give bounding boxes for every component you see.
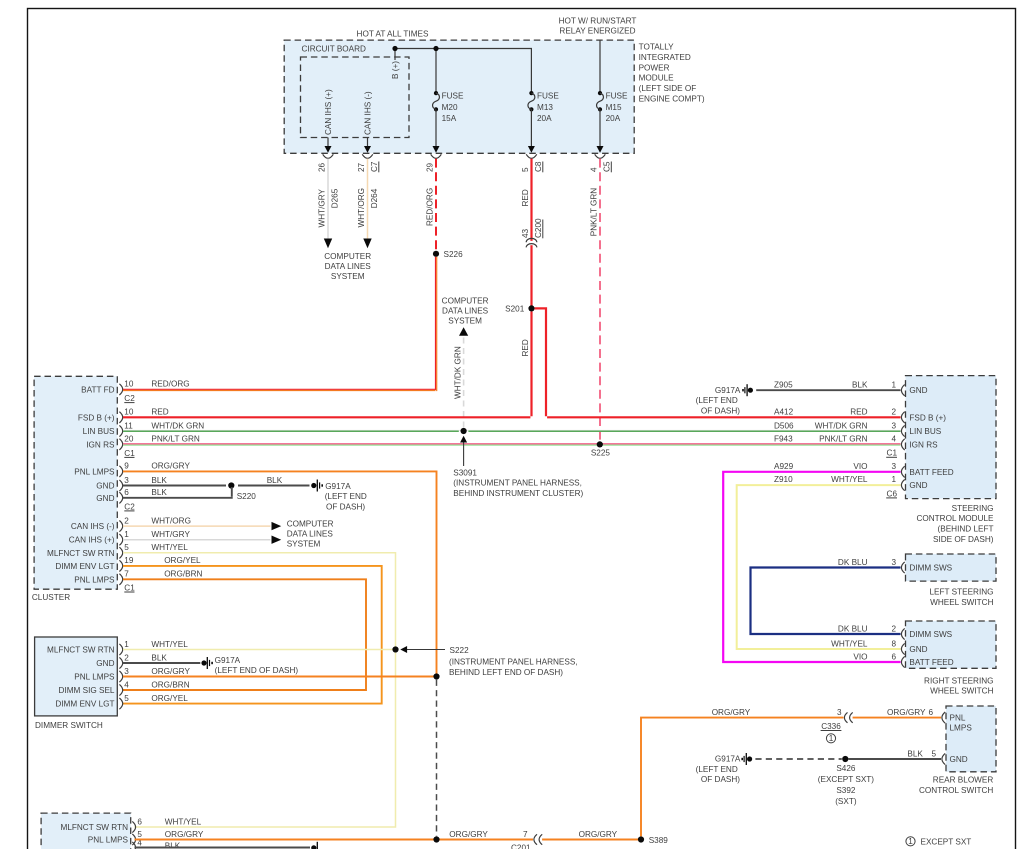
svg-text:GND: GND [96,482,114,491]
connector cup pin 4 [595,154,606,158]
node fuse M20 feed junction [433,46,438,51]
wire DK BLU left steering pin 3 [751,558,901,634]
wire CAN IHS (+) drop with arrow [325,138,332,153]
module REAR BLOWER CONTROL SWITCH box [919,706,996,795]
wire BLK GND pin3 to S220 [123,485,226,487]
svg-text:WHT/DK GRN: WHT/DK GRN [815,421,868,430]
svg-text:S226: S226 [444,250,464,259]
wire fuse M20 output drop with arrow [433,109,440,152]
module STEERING CONTROL MODULE box [906,376,997,544]
node S226 splice [433,250,463,259]
svg-text:ORG/BRN: ORG/BRN [164,570,202,579]
svg-text:S3091: S3091 [453,468,477,477]
module bottom partial box [41,813,131,849]
svg-text:ORG/BRN: ORG/BRN [151,680,189,689]
wire ORG/GRY dimmer pin 3 [123,676,434,678]
module TIPM (Totally Integrated Power Module) box [284,40,634,153]
svg-text:M15: M15 [606,103,622,112]
svg-text:PNK/LT GRN: PNK/LT GRN [819,435,867,444]
svg-text:PNL LMPS: PNL LMPS [74,575,115,584]
module LEFT STEERING WHEEL SWITCH box [906,554,997,607]
svg-text:C336: C336 [821,722,841,731]
svg-text:5: 5 [521,167,530,172]
connector cups right steering [901,628,904,667]
svg-text:DATA LINES: DATA LINES [442,307,489,316]
svg-text:CIRCUIT BOARD: CIRCUIT BOARD [302,44,367,53]
module DIMMER SWITCH box [35,637,118,730]
connector cup left steering pin 3 [901,562,904,573]
svg-text:S392: S392 [836,786,856,795]
svg-text:WHT/GRY: WHT/GRY [318,188,327,227]
svg-text:6: 6 [137,817,142,826]
wire RED/ORG pin 29 dashed [426,159,436,251]
svg-text:MLFNCT SW RTN: MLFNCT SW RTN [61,823,129,832]
svg-text:S201: S201 [505,304,525,313]
svg-text:LIN BUS: LIN BUS [83,427,115,436]
svg-text:COMPUTER: COMPUTER [324,252,371,261]
svg-text:ORG/YEL: ORG/YEL [164,556,201,565]
svg-text:VIO: VIO [853,652,867,661]
svg-text:RED: RED [850,408,867,417]
svg-text:VIO: VIO [853,462,867,471]
svg-text:IGN RS: IGN RS [909,440,938,449]
svg-text:ORG/GRY: ORG/GRY [449,830,488,839]
wire WHT/YEL dimmer pin 1 [123,649,392,651]
wire RED from S201 down to FSD row (left branch) [521,312,531,417]
connector cup pin 29 [431,154,442,158]
svg-text:PNK/LT GRN: PNK/LT GRN [590,188,599,236]
svg-text:4: 4 [590,167,599,172]
svg-text:C1: C1 [887,449,898,458]
svg-text:ORG/GRY: ORG/GRY [151,667,190,676]
right steering pin labels [831,624,896,661]
svg-text:COMPUTER: COMPUTER [442,296,489,305]
dimmer pin names [47,646,115,709]
svg-text:ORG/YEL: ORG/YEL [151,694,188,703]
svg-text:DIMM ENV LGT: DIMM ENV LGT [55,700,114,709]
svg-text:7: 7 [523,830,528,839]
svg-text:BEHIND LEFT END OF DASH): BEHIND LEFT END OF DASH) [449,668,563,677]
wire RED branch from S201 to right vertical [535,308,546,416]
svg-text:HOT W/ RUN/START: HOT W/ RUN/START [559,16,637,25]
svg-text:RED: RED [521,339,530,356]
svg-text:6: 6 [928,708,933,717]
svg-text:FUSE: FUSE [442,92,464,101]
svg-text:1: 1 [829,734,834,743]
scm connector cups [901,385,904,491]
svg-text:(EXCEPT SXT): (EXCEPT SXT) [818,775,875,784]
svg-text:3: 3 [891,462,896,471]
svg-text:SIDE OF DASH): SIDE OF DASH) [933,535,994,544]
svg-text:WHT/ORG: WHT/ORG [151,516,191,525]
svg-text:LIN BUS: LIN BUS [909,427,941,436]
wire RED/ORG BATT FD row [123,389,436,390]
wire CAN IHS (-) drop with arrow [364,138,371,153]
scm pin names [909,386,953,490]
svg-text:ORG/GRY: ORG/GRY [151,462,190,471]
svg-text:LEFT STEERING: LEFT STEERING [930,588,994,597]
svg-text:WHT/YEL: WHT/YEL [831,475,868,484]
svg-text:20A: 20A [537,114,552,123]
wire BLK dashed down to C201 row [436,680,438,837]
dimmer connector cups [119,644,122,709]
svg-text:DATA LINES: DATA LINES [325,262,372,271]
wire fuse M15 output drop with arrow [597,109,604,152]
wire PNK/LT GRN IGN RS row [123,444,901,445]
wire BLK GND pin6 row [123,497,233,499]
node S222 splice [392,646,577,677]
svg-text:S222: S222 [450,646,470,655]
wire RED FSD B(+) row right segment [547,416,900,418]
svg-text:OF DASH): OF DASH) [701,775,740,784]
svg-text:10: 10 [124,380,134,389]
svg-text:ORG/GRY: ORG/GRY [887,708,926,717]
svg-text:D506: D506 [774,421,794,430]
svg-text:BLK: BLK [151,476,167,485]
ground G917A (scm) [696,384,753,415]
svg-text:1: 1 [891,381,896,390]
svg-text:TOTALLY: TOTALLY [639,43,675,52]
svg-text:(LEFT SIDE OF: (LEFT SIDE OF [639,84,697,93]
svg-text:27: 27 [357,162,366,172]
ground G917A (dimmer) [201,656,298,675]
connector cup pin 5 [526,154,537,158]
svg-text:BLK: BLK [267,476,283,485]
svg-text:(LEFT END OF DASH): (LEFT END OF DASH) [215,666,299,675]
svg-text:2: 2 [891,624,896,633]
wire BLK dashed from G917A to S426 [755,758,841,760]
svg-text:9: 9 [124,462,129,471]
bottom box pin numbers and colors [137,817,203,849]
svg-text:D265: D265 [331,188,340,208]
svg-text:HOT AT ALL TIMES: HOT AT ALL TIMES [357,30,429,39]
svg-text:DIMM SWS: DIMM SWS [909,630,952,639]
svg-text:F943: F943 [774,435,793,444]
svg-text:GND: GND [909,386,927,395]
svg-text:Z905: Z905 [774,381,793,390]
wire WHT/DK GRN dashed vertical to S3091 [454,338,464,428]
svg-text:3: 3 [124,476,129,485]
svg-text:10: 10 [124,408,134,417]
connector C336 [821,712,853,743]
wire RED/ORG from S226 down to BATT FD row [436,257,437,391]
svg-text:WHT/ORG: WHT/ORG [357,188,366,228]
svg-text:A929: A929 [774,462,794,471]
wire WHT/GRY D265 pin 26 [318,159,340,249]
wire VIO A929 BATT FEED row [723,472,900,662]
svg-text:D264: D264 [370,188,379,208]
svg-text:WHT/YEL: WHT/YEL [165,817,202,826]
cluster connector cups [119,384,122,585]
wire ORG/GRY to rear blower PNL LMPS [641,708,941,837]
svg-text:CAN IHS (+): CAN IHS (+) [324,89,333,135]
module CLUSTER box [32,376,117,602]
svg-text:WHEEL SWITCH: WHEEL SWITCH [930,598,993,607]
dimmer pin numbers and wire colors [124,640,190,703]
svg-text:(SXT): (SXT) [835,797,857,806]
wire ORG/YEL DIMM ENV LGT from cluster [123,566,382,704]
svg-text:(LEFT END: (LEFT END [696,765,738,774]
svg-text:SYSTEM: SYSTEM [331,272,365,281]
note 1 EXCEPT SXT [906,837,971,847]
svg-text:ORG/GRY: ORG/GRY [712,708,751,717]
svg-text:3: 3 [891,421,896,430]
svg-text:S426: S426 [836,764,856,773]
svg-text:C1: C1 [124,583,135,592]
svg-text:PNK/LT GRN: PNK/LT GRN [151,435,199,444]
wire WHT/YEL MLFNCT SW RTN from cluster [123,553,396,648]
svg-text:WHT/GRY: WHT/GRY [151,530,190,539]
svg-text:CAN IHS (-): CAN IHS (-) [71,522,115,531]
svg-text:ENGINE COMPT): ENGINE COMPT) [639,94,705,103]
svg-text:11: 11 [124,421,133,430]
arrow up to computer data lines [459,327,468,336]
ground G917A (cluster) [311,480,367,512]
svg-text:8: 8 [891,639,896,648]
svg-text:WHT/YEL: WHT/YEL [151,640,188,649]
svg-text:15A: 15A [442,114,457,123]
svg-text:BATT FD: BATT FD [81,385,114,394]
svg-text:BLK: BLK [852,381,868,390]
svg-text:S389: S389 [649,836,669,845]
svg-text:DATA LINES: DATA LINES [287,530,334,539]
svg-text:WHT/YEL: WHT/YEL [151,543,188,552]
svg-text:A412: A412 [774,408,794,417]
wire WHT/YEL from S222 down to bottom box [135,653,396,827]
svg-text:4: 4 [891,435,896,444]
svg-text:G917A: G917A [215,656,241,665]
svg-text:REAR BLOWER: REAR BLOWER [933,776,994,785]
svg-text:RELAY ENERGIZED: RELAY ENERGIZED [559,27,635,36]
svg-text:B (+): B (+) [391,61,400,79]
node S3091 splice on LIN BUS [453,428,583,498]
svg-text:C201: C201 [511,844,531,849]
ground G917A (rear blower) [696,753,753,784]
svg-text:DK BLU: DK BLU [838,624,868,633]
svg-text:ORG/GRY: ORG/GRY [579,830,618,839]
svg-text:S220: S220 [237,492,257,501]
svg-text:MLFNCT SW RTN: MLFNCT SW RTN [47,549,115,558]
cluster wire color labels [151,380,204,579]
connector cup pin 27 [362,154,373,158]
svg-text:1: 1 [124,640,129,649]
svg-text:C6: C6 [887,489,898,498]
svg-text:PNL LMPS: PNL LMPS [74,673,115,682]
fuse M15 20A [597,91,628,123]
svg-text:DIMM SIG SEL: DIMM SIG SEL [59,686,115,695]
svg-text:FSD B (+): FSD B (+) [909,413,946,422]
connector C200 pin 43 [521,218,543,247]
wire WHT/YEL Z910 GND row [737,485,901,649]
node B(+) junction [392,46,397,51]
connector cup pin 26 [323,154,334,158]
wire WHT/ORG CAN IHS (-) row with arrow [123,522,281,530]
svg-text:1: 1 [124,530,129,539]
svg-text:1: 1 [891,475,896,484]
svg-text:CAN IHS (-): CAN IHS (-) [363,91,372,135]
svg-text:7: 7 [124,570,129,579]
svg-text:BEHIND INSTRUMENT CLUSTER): BEHIND INSTRUMENT CLUSTER) [453,489,583,498]
wire BLK from S426 to rear blower GND [848,749,941,759]
svg-text:IGN RS: IGN RS [86,440,115,449]
svg-text:MLFNCT SW RTN: MLFNCT SW RTN [47,646,115,655]
wire fuse M13 output drop with arrow [528,109,535,152]
svg-text:CONTROL SWITCH: CONTROL SWITCH [919,786,993,795]
svg-text:BLK: BLK [151,653,167,662]
node S201 splice [505,304,534,313]
svg-text:DK BLU: DK BLU [838,558,868,567]
svg-text:G917A: G917A [325,482,351,491]
svg-text:G917A: G917A [715,386,741,395]
node S220 splice [228,482,256,501]
svg-text:BATT FEED: BATT FEED [909,658,953,667]
svg-text:5: 5 [124,694,129,703]
svg-text:20A: 20A [606,114,621,123]
connector cups rear blower [942,712,945,765]
svg-text:(LEFT END: (LEFT END [696,396,738,405]
svg-text:BLK: BLK [907,749,923,758]
svg-text:26: 26 [318,162,327,172]
label COMPUTER DATA LINES SYSTEM (top left) [324,252,371,281]
wire ORG/GRY bottom row to C201 [135,830,534,840]
svg-text:C2: C2 [124,502,135,511]
svg-text:STEERING: STEERING [952,504,994,513]
wire BLK dimmer pin 2 to ground [123,662,200,664]
svg-text:PNL: PNL [950,713,966,722]
svg-text:6: 6 [891,652,896,661]
svg-text:OF DASH): OF DASH) [326,502,365,511]
svg-text:(BEHIND LEFT: (BEHIND LEFT [938,525,994,534]
svg-text:C5: C5 [603,161,612,172]
wire ORG/BRN PNL LMPS pin7 from cluster [123,579,366,690]
wire BLK bottom box pin 4 [135,847,311,849]
wire WHT/GRY CAN IHS (+) row with arrow [123,536,281,544]
wire ORG/GRY PNL LMPS row from cluster [123,471,437,675]
svg-text:INTEGRATED: INTEGRATED [639,53,691,62]
svg-text:RED/ORG: RED/ORG [151,380,189,389]
svg-text:BATT FEED: BATT FEED [909,468,953,477]
scm pin numbers, wire codes and colors [774,381,897,499]
svg-text:20: 20 [124,435,134,444]
svg-text:Z910: Z910 [774,475,793,484]
svg-text:CAN IHS (+): CAN IHS (+) [69,536,115,545]
wire RED from C200 to S201 [530,245,532,305]
svg-text:RED: RED [521,189,530,206]
svg-text:OF DASH): OF DASH) [701,406,740,415]
svg-text:29: 29 [426,162,435,172]
svg-text:FSD B (+): FSD B (+) [78,413,115,422]
wire RED pin 5 from fuse M13 [521,159,543,241]
ground G917A (bottom partial) [311,842,317,849]
svg-text:S225: S225 [591,448,611,457]
svg-text:C2: C2 [124,394,135,403]
wire BLK Z905 GND row [756,389,900,391]
svg-text:PNL LMPS: PNL LMPS [74,467,115,476]
svg-text:5: 5 [124,543,129,552]
svg-text:DIMMER SWITCH: DIMMER SWITCH [35,721,103,730]
svg-text:2: 2 [124,653,129,662]
svg-text:3: 3 [837,708,842,717]
wire RED FSD B(+) row left segment [123,416,530,418]
label COMPUTER DATA LINES SYSTEM (cluster side) [287,520,334,549]
svg-text:FUSE: FUSE [606,92,628,101]
wire WHT/DK GRN LIN BUS row [123,430,901,431]
wire PNK/LT GRN pin 4 dashed [590,159,612,442]
svg-text:CONTROL MODULE: CONTROL MODULE [916,514,994,523]
svg-text:3: 3 [124,667,129,676]
wire B(+) bus [395,40,600,93]
svg-text:2: 2 [891,408,896,417]
svg-text:C1: C1 [124,449,135,458]
bottom box connector cups [132,821,135,849]
svg-text:M20: M20 [442,103,458,112]
svg-text:BLK: BLK [151,488,167,497]
svg-text:3: 3 [891,558,896,567]
svg-text:C8: C8 [534,161,543,172]
svg-text:ORG/GRY: ORG/GRY [165,830,204,839]
node S426 splice [818,756,875,806]
svg-text:GND: GND [950,755,968,764]
svg-text:C7: C7 [370,161,379,172]
svg-text:POWER: POWER [639,64,670,73]
svg-text:C200: C200 [534,218,543,238]
circuit board inner box [301,44,410,137]
svg-text:4: 4 [124,680,129,689]
svg-text:(INSTRUMENT PANEL HARNESS,: (INSTRUMENT PANEL HARNESS, [453,479,582,488]
svg-text:MODULE: MODULE [639,74,675,83]
svg-text:2: 2 [124,516,129,525]
svg-text:DIMM SWS: DIMM SWS [909,564,952,573]
node dimmer ORG/GRY junction [433,673,439,679]
svg-text:LMPS: LMPS [950,724,973,733]
wire BLK from S220 to G917A [238,476,310,486]
svg-text:RED/ORG: RED/ORG [426,188,435,226]
svg-text:6: 6 [124,488,129,497]
node S225 splice on IGN RS [591,441,611,457]
fuse M20 15A [433,91,464,123]
label TOTALLY INTEGRATED POWER MODULE [639,43,705,104]
svg-text:EXCEPT SXT: EXCEPT SXT [921,837,972,846]
svg-text:GND: GND [96,494,114,503]
svg-text:19: 19 [124,556,134,565]
svg-text:(INSTRUMENT PANEL HARNESS,: (INSTRUMENT PANEL HARNESS, [449,658,578,667]
svg-text:DIMM ENV LGT: DIMM ENV LGT [55,562,114,571]
svg-text:PNL LMPS: PNL LMPS [88,836,129,845]
svg-text:WHT/DK GRN: WHT/DK GRN [454,346,463,399]
wire ORG/GRY from C201 to S389 [542,830,638,840]
svg-text:43: 43 [521,228,530,238]
svg-text:G917A: G917A [715,755,741,764]
connector C201 [511,834,542,849]
node junction dashed-to-ORG/GRY [433,836,439,842]
svg-text:RIGHT STEERING: RIGHT STEERING [924,676,993,685]
label HOT W/ RUN/START RELAY ENERGIZED [559,16,637,35]
svg-text:1: 1 [908,837,913,846]
svg-text:COMPUTER: COMPUTER [287,520,334,529]
node S389 splice [638,836,668,845]
cluster pin names [47,385,115,584]
svg-text:GND: GND [96,659,114,668]
svg-text:WHT/DK GRN: WHT/DK GRN [151,421,204,430]
svg-text:SYSTEM: SYSTEM [448,317,482,326]
svg-text:WHEEL SWITCH: WHEEL SWITCH [930,687,993,696]
svg-text:SYSTEM: SYSTEM [287,540,321,549]
wire WHT/ORG D264 pin 27 [357,159,379,249]
svg-text:5: 5 [931,749,936,758]
module RIGHT STEERING WHEEL SWITCH box [906,621,997,696]
svg-text:WHT/YEL: WHT/YEL [831,639,868,648]
svg-text:GND: GND [909,481,927,490]
